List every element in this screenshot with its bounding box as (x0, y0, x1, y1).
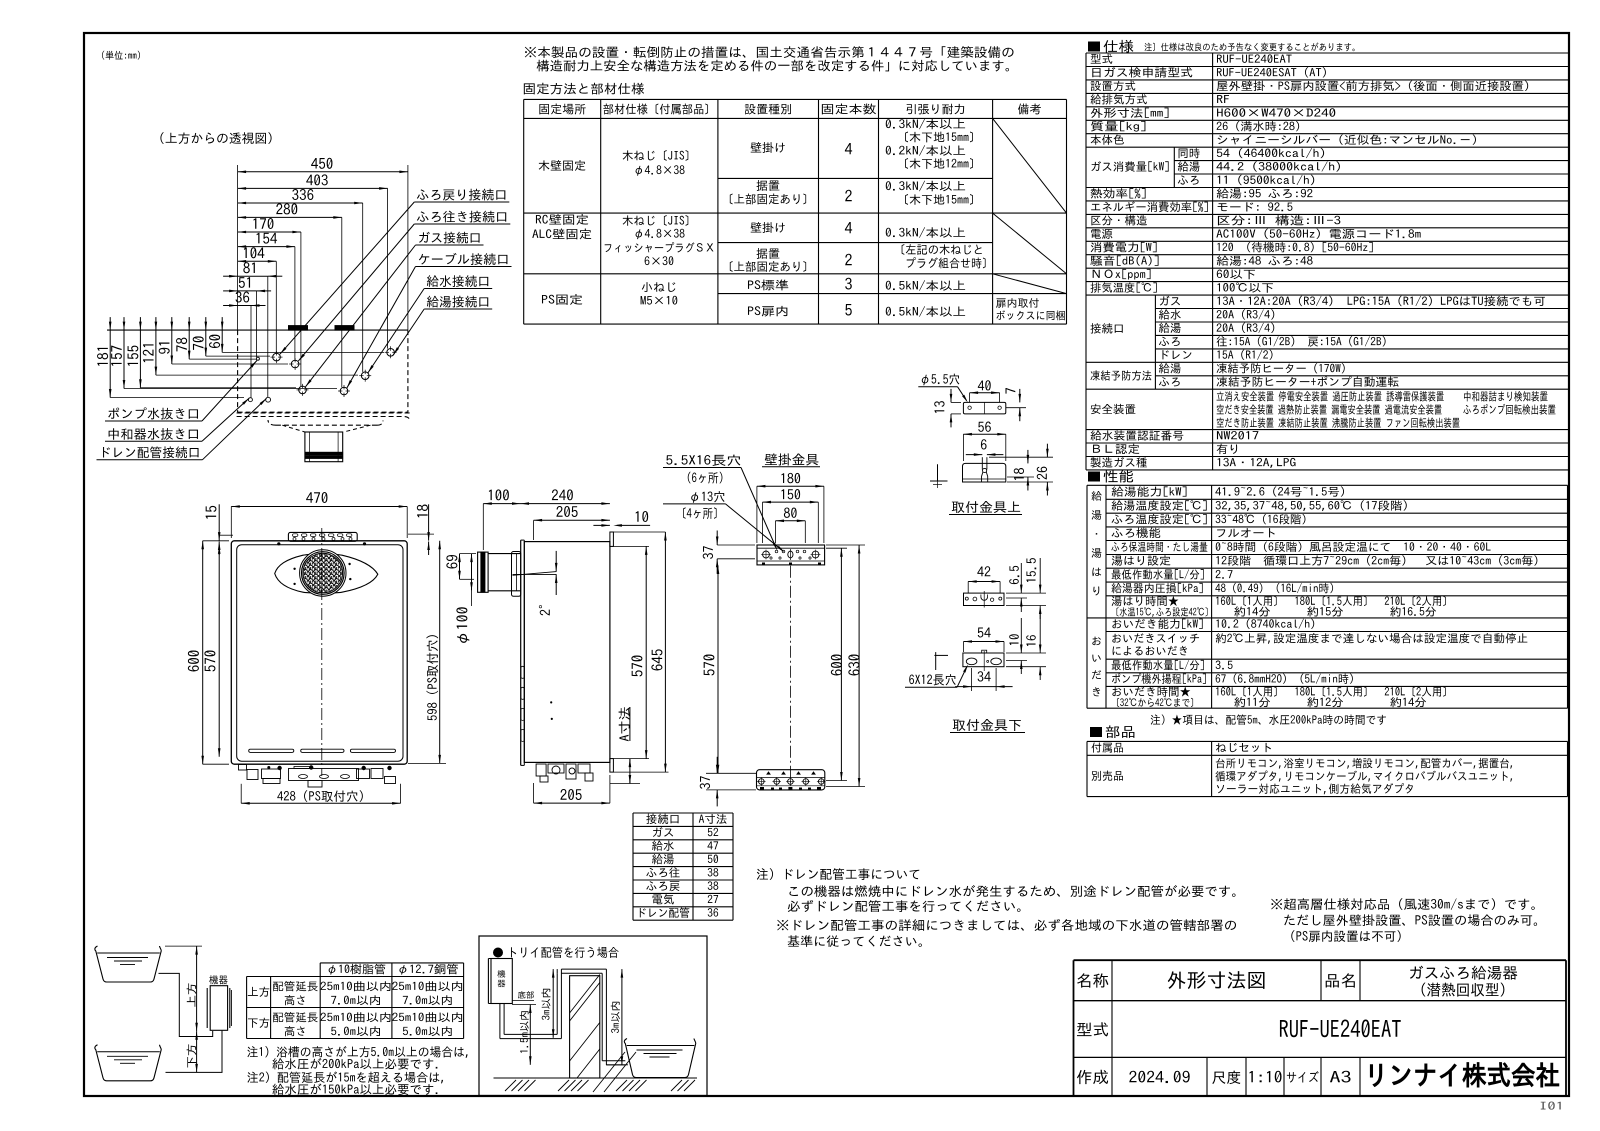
torii kiki unit (491, 959, 512, 1004)
dim 428 PS front (277, 790, 363, 802)
top view dim extension left (237, 165, 239, 330)
note chokousou (1271, 898, 1535, 910)
dim 170 (top view) (254, 218, 274, 229)
title block meishou (1077, 973, 1108, 987)
spec sub dividers (1173, 147, 1175, 187)
left diagram pipes (159, 973, 213, 1036)
top view unit outline dashed (237, 330, 239, 412)
kanagu-shita dim 15.5 (1026, 558, 1036, 582)
torii dim 1.5m (520, 1011, 529, 1052)
label chuuwaki mizunuki (109, 428, 198, 440)
perf table grid (1087, 484, 1568, 486)
front view top bracket (288, 532, 357, 541)
spec table text (1091, 54, 1113, 64)
dim 10 side (636, 511, 648, 522)
side view wall rail bottom (610, 759, 614, 773)
dim 37 bracket top (703, 546, 713, 559)
port gas (299, 386, 307, 394)
label cable setsuzokuguchi (419, 253, 508, 265)
fixation row RC ALC (536, 214, 588, 225)
dim 598 PS front (426, 635, 438, 720)
torii wall hatched (570, 976, 600, 1078)
torii pipe (499, 1004, 501, 1039)
dim 78 (top view left) (176, 338, 187, 352)
torii ground hatching (505, 1080, 516, 1091)
label 2 deg side (539, 605, 550, 615)
label 5.5x16 nagaana (666, 455, 740, 466)
dim 180 bracket (782, 473, 801, 483)
dim 470 front (306, 492, 327, 503)
dim 645 side (651, 649, 662, 670)
bracket center line (789, 566, 791, 785)
fixation row PS (542, 294, 582, 305)
label pump mizunuki (108, 407, 198, 419)
front view grille lens (275, 554, 378, 593)
kanagu-shita title (953, 719, 1021, 731)
kanagu-ue dim 6 (981, 439, 987, 449)
dim 205 side top (556, 506, 577, 517)
left diagram lower tub (95, 1045, 161, 1081)
dim 600 bracket (831, 655, 842, 676)
perf table rows (1112, 486, 1187, 496)
unit note (tanni mm) (102, 51, 140, 60)
kanagu-shita dim 54 (978, 627, 991, 637)
dim 80 bracket (784, 508, 797, 518)
front view bottom fittings (239, 765, 247, 771)
side view body (524, 542, 610, 763)
top view drain pipe (305, 432, 343, 462)
dim 205 side bottom (560, 789, 581, 800)
dim 91 (top view left) (159, 343, 170, 354)
side view bottom fittings (536, 764, 546, 776)
dim 570 bracket (703, 655, 714, 676)
front view outline (231, 541, 407, 764)
dim 600 front (188, 651, 199, 672)
dim 630 bracket (848, 655, 859, 676)
kanagu-shita dim 34 (978, 671, 991, 681)
torii dim 3m left (541, 989, 550, 1020)
fixation row kokabe (539, 160, 586, 171)
kanagu-shita plate2 (963, 653, 1004, 667)
dim 450 (top view) (311, 158, 332, 169)
kanagu-ue datum mark (937, 464, 939, 481)
port furo-yuki (291, 360, 299, 368)
port drain small (256, 357, 259, 360)
title block row3 (1077, 1070, 1108, 1084)
kanagu-ue dim 26 (1037, 467, 1047, 480)
side view rail step lines (613, 531, 665, 533)
label drain haikan setsuzokuguchi (103, 446, 199, 458)
spec table grid (1086, 52, 1569, 54)
front view grille circles (300, 550, 346, 596)
page number I01 (1541, 1102, 1561, 1110)
port kyuusui (361, 372, 369, 380)
left diagram upper tub (95, 946, 161, 982)
title block row3 dividers (1206, 1057, 1208, 1096)
dim 155 (top view left) (128, 346, 139, 366)
dim 69 side (446, 555, 457, 569)
front view center line (321, 528, 323, 776)
kanagu-shita datum mark (934, 654, 948, 656)
title block frame (1074, 959, 1567, 961)
piping table (320, 962, 463, 964)
note drain piping (757, 868, 919, 880)
kanagu-ue title (952, 501, 1020, 513)
parts table grid (1087, 740, 1568, 742)
dim 18 front right (417, 505, 428, 518)
torii title (493, 948, 503, 958)
fixation table title (524, 83, 644, 95)
bracket top plate (757, 545, 825, 565)
top view condensate tray dashed (237, 413, 410, 421)
dim 336 (top view) (292, 189, 313, 200)
fixation table diagonals (bikou) (993, 118, 1067, 213)
label furo-yuki setsuzokuguchi (417, 211, 506, 223)
top view title (160, 132, 271, 144)
dim 70 (top view left) (193, 336, 204, 349)
dim 181 (top view left) (97, 348, 108, 366)
kanagu-shita plate1 (964, 593, 1005, 605)
dim 121 (top view left) (143, 344, 154, 362)
top view drain funnel dashed (282, 425, 305, 432)
left diagram kiki unit (209, 975, 227, 984)
torii box (479, 936, 707, 1096)
torii teibu label (518, 991, 534, 999)
dim 81 (top view) (243, 262, 255, 273)
port neutralizer drain (266, 397, 271, 402)
side view exhaust collar (512, 552, 521, 597)
left diagram dim jouhou (187, 983, 197, 1006)
kanagu-ue dim 18 (1014, 468, 1024, 480)
dim 154 (top view) (257, 233, 277, 244)
kabekake kanagu title (765, 453, 819, 465)
kanagu-shita dim 42 (977, 566, 990, 576)
side view dots (550, 701, 552, 703)
perf group labels (1092, 491, 1102, 501)
dim 150 bracket (782, 489, 801, 499)
dim 60 (top view left) (209, 335, 220, 348)
dim 104 (top view) (244, 247, 264, 258)
spec table title (1088, 42, 1100, 52)
perf yuhari jikan row (1112, 596, 1179, 606)
perf table title (1088, 472, 1100, 482)
side view wall rail top (610, 532, 614, 546)
port kyuutou (387, 349, 395, 357)
dim 51 (top view) (239, 277, 250, 288)
side view front panel (520, 540, 522, 765)
kanagu-ue plate1 (963, 402, 1005, 414)
extension lines to ports (top dims) (387, 188, 389, 348)
fixation table grid (524, 98, 1067, 100)
parts table text (1092, 743, 1123, 753)
kanagu-ue label phi5.5 (922, 374, 960, 386)
kanagu-shita dim 16 (1026, 635, 1036, 646)
front view louver slots (249, 749, 294, 752)
top view wall line (107, 329, 408, 331)
A sunpou table (633, 812, 733, 814)
dim 403 (top view) (306, 174, 328, 185)
dim 37 bracket bottom (700, 776, 710, 789)
note seihin secchi (525, 46, 1014, 58)
piping notes (247, 1046, 467, 1058)
dim 280 (top view) (276, 203, 297, 214)
torii ground line (494, 1077, 698, 1079)
kanagu-ue dim 7 (1005, 388, 1015, 394)
torii dim 3m right (611, 1002, 620, 1033)
top view dim extension right 450 (407, 165, 409, 330)
parts table title (1090, 727, 1102, 737)
top view wall bracket sections (289, 326, 308, 331)
torii tub (624, 1039, 695, 1078)
kanagu-ue dim 13 (934, 401, 944, 413)
label phi13 ana (691, 491, 724, 503)
label furo-modori setsuzokuguchi (417, 189, 505, 201)
front view grille dots (293, 568, 295, 570)
front view inner panel (237, 545, 403, 762)
dim 15 front (206, 506, 217, 519)
perf oidaki rows (1112, 619, 1202, 629)
kanagu-ue dim 40 (978, 380, 991, 390)
dim 157 (top view left) (111, 346, 122, 366)
port furo-modori (273, 353, 281, 361)
fixation table headers (539, 104, 585, 115)
kanagu-shita label 6x12 (909, 674, 955, 685)
port pump drain (248, 398, 252, 402)
dim 36 (top view) (236, 291, 250, 302)
dim A sunpou side (619, 707, 630, 741)
kanagu-shita dim 10 (1009, 634, 1019, 645)
label gas setsuzokuguchi (419, 232, 480, 244)
left diagram dim kahou (187, 1044, 197, 1067)
dim 240 side (552, 489, 573, 500)
title block katashiki (1077, 1022, 1108, 1036)
kanagu-shita dim 6.5 (1009, 566, 1019, 584)
front view top screws (277, 542, 280, 545)
bracket bottom plate (757, 770, 825, 790)
dim phi100 side (471, 554, 473, 591)
dim 570 front (204, 651, 215, 672)
perf note hoshi (1151, 714, 1386, 725)
spec anzen souchi text (1217, 391, 1444, 402)
dim 570 side (631, 656, 642, 677)
label kyuutou setsuzokuguchi (427, 296, 488, 308)
kanagu-ue plate2 (963, 463, 1006, 482)
port cable (340, 387, 348, 395)
side view front slots (521, 666, 524, 678)
dim 100 side (489, 489, 509, 500)
kanagu-ue dim 56 (978, 422, 991, 432)
side view exhaust pipe (478, 552, 489, 592)
label kyuusui setsuzokuguchi (427, 275, 488, 287)
piping table text (329, 964, 386, 975)
